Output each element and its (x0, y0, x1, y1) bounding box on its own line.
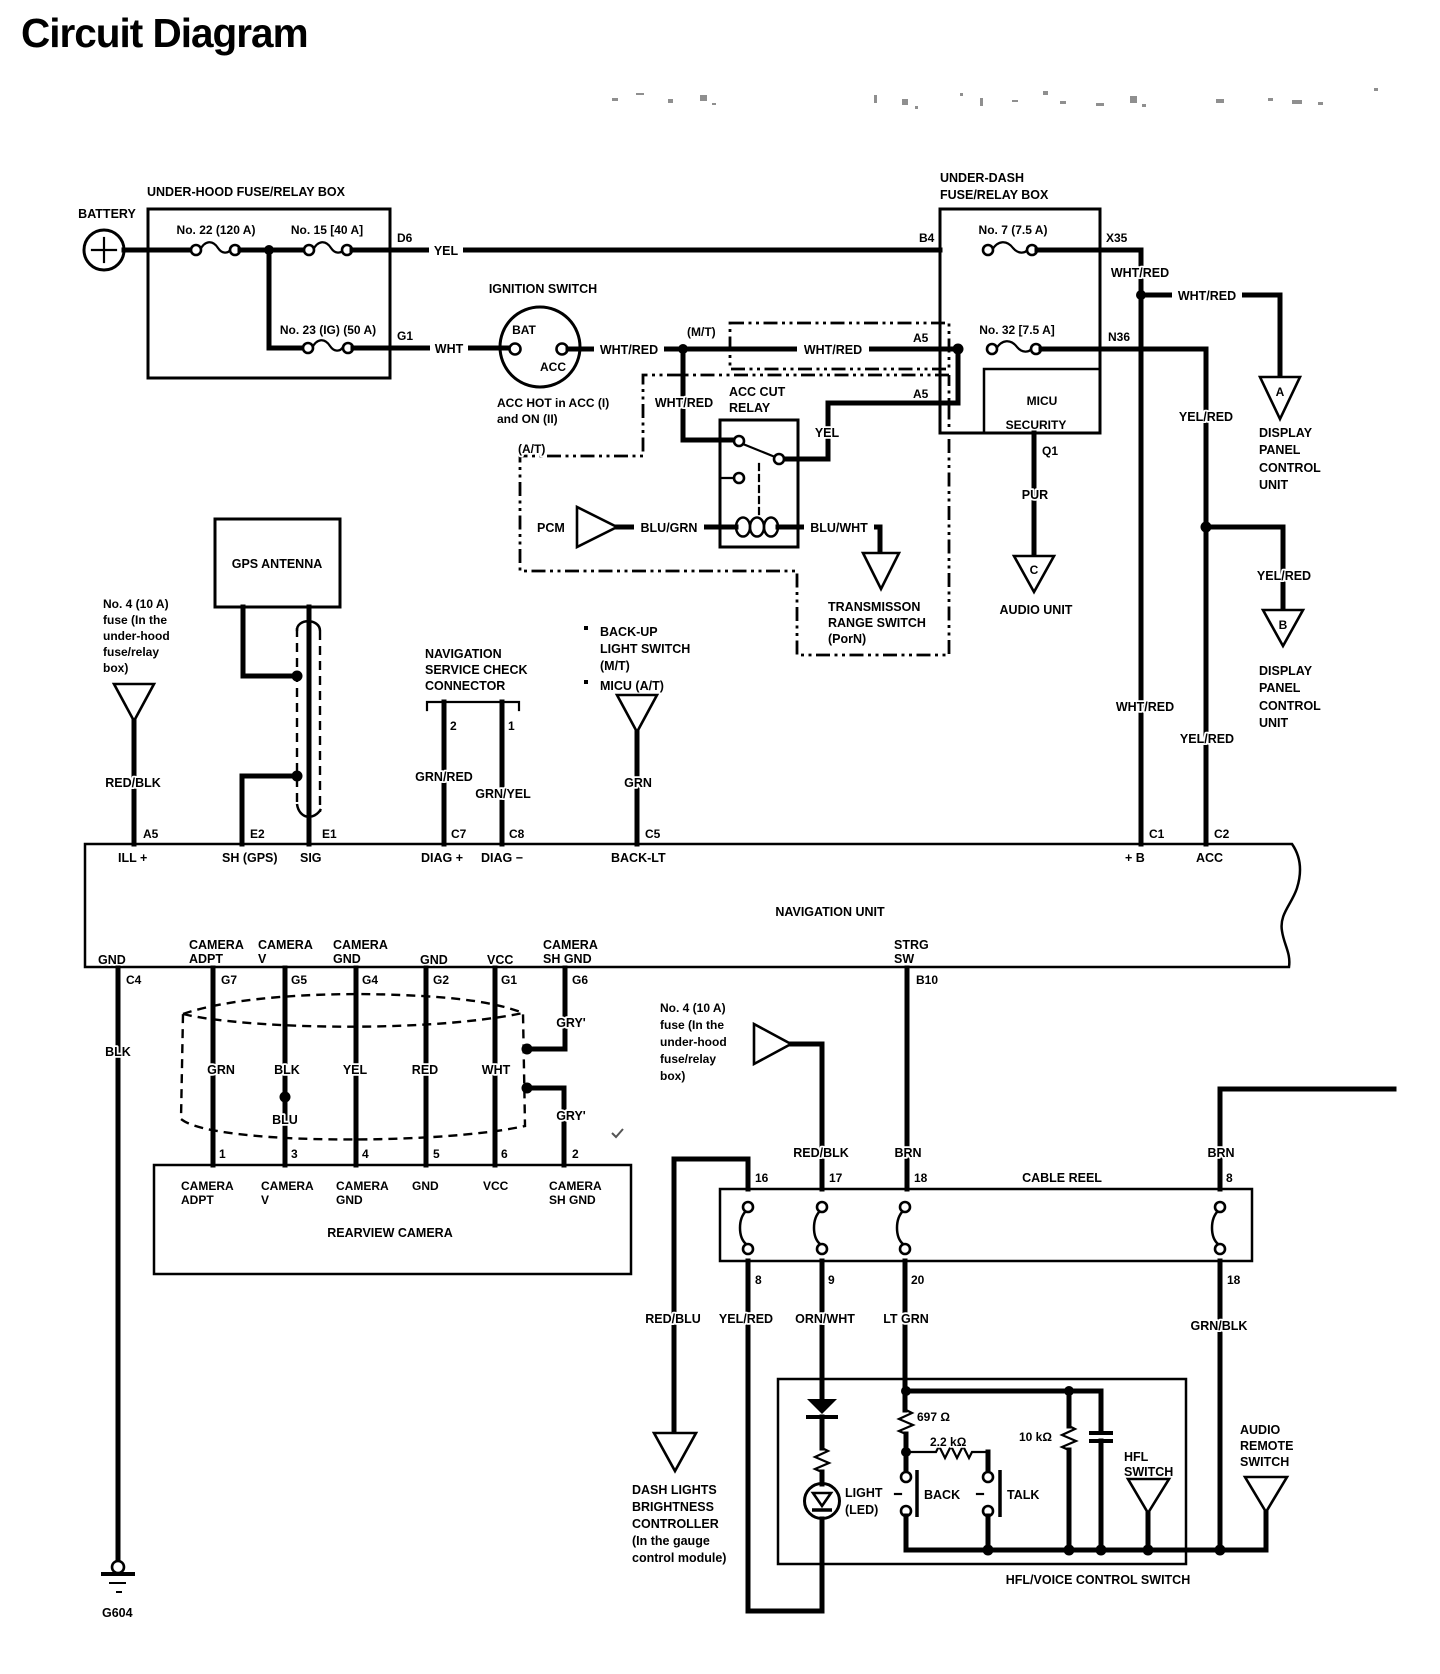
GPS antenna (215, 519, 340, 607)
svg-text:No. 15 [40 A]: No. 15 [40 A] (291, 223, 363, 237)
svg-text:B: B (1279, 618, 1288, 632)
svg-text:(LED): (LED) (845, 1503, 878, 1517)
svg-text:C2: C2 (1214, 827, 1230, 841)
svg-text:DIAG −: DIAG − (481, 851, 523, 865)
svg-text:PUR: PUR (1022, 488, 1048, 502)
wire pin 1 GRN/YEL to DIAG- (475, 702, 531, 844)
svg-text:G1: G1 (501, 973, 517, 987)
svg-text:No. 23 (IG) (50 A): No. 23 (IG) (50 A) (280, 323, 376, 337)
connector C triangle / audio unit (1000, 556, 1073, 617)
dash lights brightness controller triangle (632, 1433, 726, 1565)
svg-text:MICU (A/T): MICU (A/T) (600, 679, 664, 693)
svg-text:3: 3 (291, 1147, 298, 1161)
MICU SECURITY box (984, 369, 1100, 433)
svg-text:B10: B10 (916, 973, 938, 987)
svg-text:GRN: GRN (624, 776, 652, 790)
svg-text:RED/BLK: RED/BLK (105, 776, 161, 790)
wire WHT/RED down to relay contact (655, 349, 736, 440)
svg-text:A5: A5 (913, 331, 929, 345)
svg-text:Q1: Q1 (1042, 444, 1058, 458)
svg-text:G6: G6 (572, 973, 588, 987)
svg-text:CAMERA: CAMERA (261, 1179, 314, 1193)
svg-text:V: V (258, 952, 267, 966)
svg-text:UNDER-DASH: UNDER-DASH (940, 171, 1024, 185)
resistor (LED ballast) (815, 1448, 829, 1472)
svg-text:WHT/RED: WHT/RED (1111, 266, 1169, 280)
svg-text:CAMERA: CAMERA (333, 938, 388, 952)
wire GPS shell to shield (243, 607, 294, 676)
svg-text:PANEL: PANEL (1259, 443, 1301, 457)
connector A triangle / display panel control unit (1259, 377, 1321, 492)
wire YEL/RED branch to display panel control unit B (1206, 527, 1311, 610)
wire LT GRN into top bus / junction (901, 1386, 1101, 1431)
audio remote switch triangle (1240, 1423, 1293, 1512)
wire RED/BLK to cable reel 17 (791, 1044, 849, 1189)
svg-text:BACK: BACK (924, 1488, 960, 1502)
svg-text:REMOTE: REMOTE (1240, 1439, 1293, 1453)
svg-text:YEL/RED: YEL/RED (1180, 732, 1234, 746)
svg-text:GND: GND (412, 1179, 439, 1193)
svg-text:GRN/YEL: GRN/YEL (475, 787, 531, 801)
svg-text:GRN/RED: GRN/RED (415, 770, 473, 784)
wire LT GRN reel 20 to HFL switch network (883, 1261, 929, 1392)
svg-text:YEL/RED: YEL/RED (719, 1312, 773, 1326)
svg-text:6: 6 (501, 1147, 508, 1161)
svg-text:No. 32 [7.5 A]: No. 32 [7.5 A] (979, 323, 1055, 337)
wire GRN to BACK-LT (624, 732, 652, 844)
fuse feed triangle No.4 (left) (114, 684, 154, 721)
node G1 / WHT wire to ignition switch (353, 329, 510, 356)
svg-text:UNIT: UNIT (1259, 478, 1289, 492)
svg-text:DIAG +: DIAG + (421, 851, 463, 865)
junction on WHT/RED vertical (1136, 290, 1146, 300)
svg-text:4: 4 (362, 1147, 369, 1161)
shield drain junction (top) (292, 671, 303, 682)
wire BLK G5 to camera 3 (274, 968, 300, 1165)
common ground bus (906, 1512, 1266, 1556)
svg-text:8: 8 (755, 1273, 762, 1287)
svg-text:A: A (1276, 385, 1285, 399)
svg-text:GRY': GRY' (556, 1016, 586, 1030)
svg-text:2: 2 (450, 719, 457, 733)
svg-text:G1: G1 (397, 329, 413, 343)
svg-text:BLU/WHT: BLU/WHT (810, 521, 868, 535)
svg-text:G5: G5 (291, 973, 307, 987)
svg-text:20: 20 (911, 1273, 925, 1287)
svg-text:(A/T): (A/T) (518, 442, 545, 456)
fuse No.23 (IG) (50 A) (280, 323, 376, 353)
PCM connector triangle (537, 507, 617, 547)
svg-text:18: 18 (914, 1171, 928, 1185)
fuse No.7 (7.5 A) (979, 223, 1048, 255)
svg-text:fuse/relay: fuse/relay (103, 645, 159, 659)
svg-text:E1: E1 (322, 827, 337, 841)
wire YEL/RED reel 8 to LED return (719, 1261, 822, 1611)
svg-text:CONNECTOR: CONNECTOR (425, 679, 505, 693)
wire SIG E1 (307, 607, 312, 844)
shield tap junction lower / wire GRY to camera 2 (522, 1083, 586, 1166)
wire BRN B10 to cable reel 18 (894, 968, 921, 1189)
wire pin 2 GRN/RED to DIAG+ (415, 702, 473, 844)
wire WHT/RED branch to display panel control unit A (1141, 288, 1280, 377)
node D6 / YEL wire to under-dash box (352, 231, 940, 258)
svg-text:8: 8 (1226, 1171, 1233, 1185)
node (M/T) junction (678, 325, 716, 354)
svg-text:RED/BLK: RED/BLK (793, 1146, 849, 1160)
wire to cable reel 16 (674, 1159, 748, 1432)
svg-text:No. 4 (10 A): No. 4 (10 A) (660, 1001, 726, 1015)
svg-text:BAT: BAT (512, 323, 536, 337)
junction node in under-hood box (264, 245, 274, 255)
svg-text:DASH LIGHTS: DASH LIGHTS (632, 1483, 717, 1497)
svg-text:RANGE SWITCH: RANGE SWITCH (828, 616, 926, 630)
reel contact 8-18 (1212, 1202, 1225, 1254)
svg-text:CAMERA: CAMERA (189, 938, 244, 952)
svg-text:G4: G4 (362, 973, 378, 987)
svg-text:SIG: SIG (300, 851, 322, 865)
svg-text:LIGHT: LIGHT (845, 1486, 883, 1500)
svg-text:GRN: GRN (207, 1063, 235, 1077)
capacitor C1 (1089, 1433, 1113, 1550)
svg-text:SH GND: SH GND (543, 952, 592, 966)
wire BLU/GRN PCM to relay coil (617, 520, 720, 535)
svg-text:AUDIO UNIT: AUDIO UNIT (1000, 603, 1073, 617)
svg-text:SWITCH: SWITCH (1240, 1455, 1289, 1469)
navigation service check connector (425, 647, 528, 710)
reel contact 18-20 (897, 1202, 910, 1254)
ignition switch (489, 282, 609, 426)
svg-text:STRG: STRG (894, 938, 929, 952)
fuse No.22 (120 A) (177, 223, 256, 255)
svg-text:YEL/RED: YEL/RED (1257, 569, 1311, 583)
svg-text:No. 22 (120 A): No. 22 (120 A) (177, 223, 256, 237)
svg-text:YEL: YEL (815, 426, 840, 440)
branch wire to fuse No.23 (269, 250, 303, 348)
battery (78, 207, 136, 270)
svg-text:2: 2 (572, 1147, 579, 1161)
svg-text:697 Ω: 697 Ω (917, 1410, 950, 1424)
svg-text:16: 16 (755, 1171, 769, 1185)
svg-text:(In the gauge: (In the gauge (632, 1534, 710, 1548)
under-dash fuse/relay box (940, 171, 1100, 433)
wire ACC to M/T junction, WHT/RED (568, 342, 958, 357)
under-hood fuse/relay box (147, 185, 390, 378)
camera harness shield bundle (dashed) (181, 994, 525, 1139)
svg-text:WHT/RED: WHT/RED (600, 343, 658, 357)
svg-text:WHT/RED: WHT/RED (804, 343, 862, 357)
wire GRY G6 to shield (upper) (527, 968, 586, 1049)
wire WHT G1 to camera 6 (482, 968, 511, 1165)
svg-text:CONTROL: CONTROL (1259, 461, 1321, 475)
stray mark (612, 1129, 623, 1137)
wire RED G2 to camera 5 (412, 968, 438, 1165)
svg-text:A5: A5 (913, 387, 929, 401)
svg-text:YEL: YEL (343, 1063, 368, 1077)
svg-text:No. 4 (10 A): No. 4 (10 A) (103, 597, 169, 611)
wire ORN/WHT reel 9 to HFL diode (795, 1261, 855, 1400)
svg-text:HFL: HFL (1124, 1450, 1149, 1464)
svg-text:X35: X35 (1106, 231, 1128, 245)
svg-text:BACK-LT: BACK-LT (611, 851, 666, 865)
svg-text:1: 1 (508, 719, 515, 733)
wire RED/BLK to ILL+ (105, 721, 161, 844)
svg-text:ADPT: ADPT (181, 1193, 214, 1207)
node A5 (No.32 feed) (913, 331, 964, 355)
svg-text:E2: E2 (250, 827, 265, 841)
svg-text:BRIGHTNESS: BRIGHTNESS (632, 1500, 714, 1514)
svg-text:9: 9 (828, 1273, 835, 1287)
svg-text:fuse (In the: fuse (In the (103, 613, 167, 627)
svg-text:C1: C1 (1149, 827, 1165, 841)
svg-text:box): box) (660, 1069, 685, 1083)
diode D1 (LED branch) (806, 1399, 838, 1448)
svg-text:SWITCH: SWITCH (1124, 1465, 1173, 1479)
svg-text:C5: C5 (645, 827, 661, 841)
HFL switch triangle (1124, 1450, 1173, 1550)
svg-text:DISPLAY: DISPLAY (1259, 426, 1313, 440)
wire BRN (steering) to cable reel 8 (1207, 1089, 1394, 1189)
fuse feed triangle No.4 (right) (754, 1024, 791, 1064)
svg-text:ILL +: ILL + (118, 851, 147, 865)
svg-text:+ B: + B (1125, 851, 1145, 865)
svg-text:ORN/WHT: ORN/WHT (795, 1312, 855, 1326)
navigation unit band (85, 844, 1300, 967)
svg-text:ACC: ACC (1196, 851, 1223, 865)
svg-text:17: 17 (829, 1171, 843, 1185)
svg-text:GND: GND (420, 953, 448, 967)
svg-text:and ON (II): and ON (II) (497, 412, 558, 426)
svg-text:G7: G7 (221, 973, 237, 987)
svg-text:YEL/RED: YEL/RED (1179, 410, 1233, 424)
svg-text:CAMERA: CAMERA (181, 1179, 234, 1193)
svg-text:WHT: WHT (435, 342, 464, 356)
svg-text:18: 18 (1227, 1273, 1241, 1287)
svg-text:LT GRN: LT GRN (883, 1312, 929, 1326)
svg-text:C4: C4 (126, 973, 142, 987)
svg-text:C7: C7 (451, 827, 467, 841)
svg-text:CAMERA: CAMERA (549, 1179, 602, 1193)
svg-text:CABLE REEL: CABLE REEL (1022, 1171, 1102, 1185)
svg-text:WHT/RED: WHT/RED (1178, 289, 1236, 303)
svg-text:A5: A5 (143, 827, 159, 841)
svg-text:BLU: BLU (272, 1113, 298, 1127)
ground G604 (101, 1561, 135, 1620)
rearview camera box (154, 1165, 631, 1274)
svg-text:BLK: BLK (105, 1045, 131, 1059)
svg-text:C8: C8 (509, 827, 525, 841)
wire WHT/RED vertical X35 to navigation unit C1 (1111, 250, 1174, 844)
reel contact 17-9 (814, 1202, 827, 1254)
node N36 / wire to YEL/RED vertical (1041, 330, 1206, 349)
svg-text:NAVIGATION: NAVIGATION (425, 647, 502, 661)
svg-text:WHT: WHT (482, 1063, 511, 1077)
BLU tap on camera V wire (272, 1092, 298, 1128)
svg-text:SECURITY: SECURITY (1006, 418, 1067, 432)
svg-text:VCC: VCC (483, 1179, 509, 1193)
svg-text:1: 1 (219, 1147, 226, 1161)
svg-text:GND: GND (336, 1193, 363, 1207)
svg-text:MICU: MICU (1027, 394, 1058, 408)
LED LIGHT (805, 1472, 883, 1611)
svg-text:box): box) (103, 661, 128, 675)
transmission range switch connector (828, 553, 926, 646)
back-up light switch triangle (617, 695, 657, 732)
svg-text:PANEL: PANEL (1259, 681, 1301, 695)
svg-text:CONTROL: CONTROL (1259, 699, 1321, 713)
svg-text:G604: G604 (102, 1606, 133, 1620)
svg-text:GND: GND (333, 952, 361, 966)
wire battery to under-hood box (124, 248, 190, 253)
TALK switch (977, 1470, 1039, 1550)
shield tap junction upper (522, 1044, 533, 1055)
svg-text:UNIT: UNIT (1259, 716, 1289, 730)
svg-text:SW: SW (894, 952, 914, 966)
svg-text:VCC: VCC (487, 953, 513, 967)
wire BLK C4 to ground (105, 968, 131, 1561)
svg-text:AUDIO: AUDIO (1240, 1423, 1281, 1437)
svg-text:PCM: PCM (537, 521, 565, 535)
junction below 697 ohm (901, 1447, 911, 1457)
svg-text:GND: GND (98, 953, 126, 967)
svg-text:ACC HOT in ACC (I): ACC HOT in ACC (I) (497, 396, 609, 410)
cable reel (720, 1171, 1252, 1261)
svg-text:ADPT: ADPT (189, 952, 223, 966)
svg-text:under-hood: under-hood (103, 629, 170, 643)
svg-text:TRANSMISSON: TRANSMISSON (828, 600, 920, 614)
svg-text:UNDER-HOOD FUSE/RELAY BOX: UNDER-HOOD FUSE/RELAY BOX (147, 185, 346, 199)
svg-text:HFL/VOICE CONTROL SWITCH: HFL/VOICE CONTROL SWITCH (1006, 1573, 1191, 1587)
svg-text:YEL: YEL (434, 244, 459, 258)
resistor 2.2 kohm (906, 1435, 988, 1472)
svg-text:control module): control module) (632, 1551, 726, 1565)
No.4 fuse note (left) (103, 597, 170, 675)
svg-text:RED/BLU: RED/BLU (645, 1312, 701, 1326)
svg-text:CAMERA: CAMERA (258, 938, 313, 952)
svg-text:D6: D6 (397, 231, 413, 245)
svg-text:BRN: BRN (1207, 1146, 1234, 1160)
svg-text:V: V (261, 1193, 269, 1207)
node X35 / wire to WHT/RED vertical (1037, 231, 1141, 250)
svg-text:SH GND: SH GND (549, 1193, 596, 1207)
svg-text:BLK: BLK (274, 1063, 300, 1077)
shield dashed screen around SIG (297, 621, 321, 817)
svg-text:RELAY: RELAY (729, 401, 771, 415)
BACK switch (895, 1452, 960, 1550)
svg-text:IGNITION SWITCH: IGNITION SWITCH (489, 282, 597, 296)
scan noise row (612, 88, 1378, 109)
wire BLU/WHT relay to transmission range switch (798, 520, 880, 553)
A/T dash-dot outline (518, 375, 949, 655)
HFL/voice control switch box (778, 1379, 1190, 1587)
svg-text:TALK: TALK (1007, 1488, 1039, 1502)
svg-text:No. 7 (7.5 A): No. 7 (7.5 A) (979, 223, 1048, 237)
svg-text:B4: B4 (919, 231, 935, 245)
svg-text:10 kΩ: 10 kΩ (1019, 1430, 1052, 1444)
fuse No.15 (40 A) (291, 223, 363, 255)
back-up light switch / MICU note (584, 625, 690, 693)
No.4 fuse note (right) (660, 1001, 727, 1083)
svg-text:BACK-UP: BACK-UP (600, 625, 658, 639)
svg-text:SH (GPS): SH (GPS) (222, 851, 278, 865)
wire GRN G7 to camera 1 (207, 968, 235, 1165)
svg-text:C: C (1030, 563, 1039, 577)
svg-text:CONTROLLER: CONTROLLER (632, 1517, 719, 1531)
wire fuse22 to junction (240, 248, 304, 253)
svg-text:(M/T): (M/T) (600, 659, 630, 673)
svg-text:WHT/RED: WHT/RED (655, 396, 713, 410)
svg-text:CAMERA: CAMERA (336, 1179, 389, 1193)
node Q1 / PUR wire (1022, 433, 1059, 556)
svg-text:BATTERY: BATTERY (78, 207, 136, 221)
svg-text:BLU/GRN: BLU/GRN (641, 521, 698, 535)
svg-text:GPS ANTENNA: GPS ANTENNA (232, 557, 323, 571)
svg-text:under-hood: under-hood (660, 1035, 727, 1049)
svg-text:GRY': GRY' (556, 1109, 586, 1123)
svg-text:(M/T): (M/T) (687, 325, 716, 339)
wire YEL/RED vertical N36 to navigation unit C2 (1179, 349, 1234, 844)
resistor 10 kohm (1019, 1391, 1076, 1550)
connector B triangle / display panel control unit (1259, 610, 1321, 730)
svg-text:fuse/relay: fuse/relay (660, 1052, 716, 1066)
wire A5 to relay (YEL) (783, 349, 958, 459)
wire YEL G4 to camera 4 (343, 968, 368, 1165)
svg-text:REARVIEW CAMERA: REARVIEW CAMERA (327, 1226, 452, 1240)
svg-text:2.2 kΩ: 2.2 kΩ (930, 1435, 967, 1449)
svg-text:LIGHT SWITCH: LIGHT SWITCH (600, 642, 690, 656)
svg-text:fuse (In the: fuse (In the (660, 1018, 724, 1032)
fuse No.32 (7.5 A) (979, 323, 1055, 354)
shield drain junction (bottom) / wire to E2 (242, 771, 303, 845)
svg-text:GRN/BLK: GRN/BLK (1191, 1319, 1248, 1333)
svg-text:G2: G2 (433, 973, 449, 987)
svg-text:NAVIGATION UNIT: NAVIGATION UNIT (775, 905, 885, 919)
resistor 697 ohm (899, 1410, 950, 1452)
svg-text:CAMERA: CAMERA (543, 938, 598, 952)
svg-text:N36: N36 (1108, 330, 1130, 344)
svg-text:5: 5 (433, 1147, 440, 1161)
ACC cut relay (720, 385, 798, 547)
svg-text:ACC CUT: ACC CUT (729, 385, 786, 399)
svg-text:WHT/RED: WHT/RED (1116, 700, 1174, 714)
reel contact 16-8 (740, 1202, 753, 1254)
junction on YEL/RED vertical (1201, 522, 1212, 533)
svg-text:RED: RED (412, 1063, 438, 1077)
svg-text:SERVICE CHECK: SERVICE CHECK (425, 663, 528, 677)
svg-text:DISPLAY: DISPLAY (1259, 664, 1313, 678)
svg-text:BRN: BRN (894, 1146, 921, 1160)
M/T dash-dot box (730, 323, 949, 369)
svg-text:ACC: ACC (540, 360, 566, 374)
svg-text:(PorN): (PorN) (828, 632, 866, 646)
wire GRN/BLK reel 18 to common bus (1191, 1261, 1248, 1550)
svg-text:FUSE/RELAY BOX: FUSE/RELAY BOX (940, 188, 1049, 202)
svg-text:Circuit Diagram: Circuit Diagram (21, 10, 308, 56)
